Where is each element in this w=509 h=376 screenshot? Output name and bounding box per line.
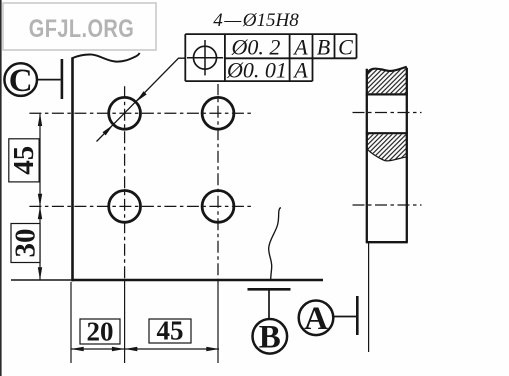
- side view centerline row2: [353, 204, 422, 206]
- datum A extension line below side view: [368, 243, 370, 352]
- dim 45 left box: [8, 139, 40, 182]
- feature control frame: [185, 34, 356, 81]
- svg-text:45: 45: [157, 316, 184, 346]
- side view hatch lower wavy boundary: [367, 149, 406, 161]
- dim 45 bottom box: [149, 316, 191, 346]
- side view right edge: [406, 68, 408, 242]
- svg-text:A: A: [292, 58, 308, 83]
- bottom dimension line: [71, 348, 219, 350]
- datum B: [248, 289, 291, 355]
- label 4--Ø15H8: [213, 10, 299, 31]
- svg-text:B: B: [259, 320, 281, 356]
- hole H3: [109, 191, 141, 223]
- FCF row2 text: Ø0.01 A: [226, 58, 308, 83]
- centerline column 1: [124, 86, 126, 281]
- centerline column 2: [217, 84, 219, 280]
- plate top edge (wavy break): [73, 53, 140, 62]
- svg-text:45: 45: [8, 146, 40, 175]
- FCF row1 text: Ø0.2 A B C: [231, 35, 354, 60]
- plate bottom edge: [71, 279, 323, 282]
- side view hatch lower region: [367, 134, 406, 161]
- svg-text:C: C: [338, 35, 353, 60]
- extension line left edge below plate: [70, 282, 72, 363]
- datum A: [299, 296, 358, 337]
- extension line bottom edge to left: [11, 279, 71, 281]
- side view hatch top region: [367, 67, 406, 93]
- side view left edge: [366, 69, 368, 242]
- centerline row 1: [29, 112, 253, 114]
- hole H2: [202, 97, 234, 129]
- svg-text:B: B: [317, 35, 330, 60]
- leader arrowhead lower: [103, 125, 114, 136]
- svg-text:30: 30: [10, 229, 42, 258]
- svg-text:A: A: [292, 35, 308, 60]
- left dimension line: [39, 113, 41, 280]
- arrow up at row1: [38, 113, 42, 126]
- svg-text:Ø0. 01: Ø0. 01: [226, 58, 287, 83]
- arrow left at x71: [71, 347, 84, 351]
- centerline row 2: [29, 205, 253, 207]
- dim 30 left box: [10, 224, 42, 263]
- extension line column 1 below plate: [124, 280, 126, 363]
- side view hole upper line: [366, 93, 408, 95]
- break line right (wavy): [269, 208, 281, 282]
- svg-text:4 — Ø15H8: 4 — Ø15H8: [213, 10, 299, 31]
- side view hole lower line: [366, 132, 408, 134]
- leader from FCF to hole H1: [97, 58, 187, 141]
- hole H1: [109, 97, 141, 129]
- arrow pair at row2: [38, 194, 42, 219]
- arrow pair at col1: [112, 347, 137, 351]
- svg-text:A: A: [304, 301, 328, 337]
- position tolerance symbol: [187, 40, 223, 75]
- side view top edge: [367, 67, 407, 76]
- svg-text:GFJL.ORG: GFJL.ORG: [29, 15, 134, 43]
- side view bottom edge: [366, 241, 408, 243]
- image left border: [0, 0, 2, 376]
- watermark box GFJL.ORG: [3, 3, 156, 50]
- extension line column 2 below plate: [217, 280, 219, 363]
- svg-text:Ø0. 2: Ø0. 2: [231, 35, 281, 60]
- dim 20 bottom box: [80, 317, 120, 347]
- side view centerline row1: [353, 112, 422, 114]
- datum C: [4, 59, 62, 99]
- svg-text:20: 20: [87, 317, 114, 347]
- arrow down at bottom edge: [38, 267, 42, 280]
- plate left edge: [71, 57, 74, 281]
- hole H4: [202, 191, 234, 223]
- arrow right at col2: [206, 347, 219, 351]
- leader arrowhead upper: [136, 91, 147, 102]
- svg-text:C: C: [9, 63, 33, 99]
